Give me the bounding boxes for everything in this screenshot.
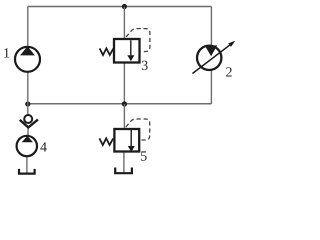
label 2 bbox=[226, 67, 232, 76]
tank symbol under valve 5 bbox=[115, 168, 132, 174]
tank symbol under pump 4 bbox=[19, 169, 35, 174]
check valve circle bbox=[24, 115, 32, 123]
wire top rail horizontal bbox=[28, 6, 212, 8]
wire check valve to pump 4 bbox=[27, 128, 29, 136]
label 4 bbox=[40, 142, 47, 151]
node left junction bbox=[25, 101, 30, 106]
wire top-right vertical (top rail to motor 2) bbox=[210, 7, 212, 46]
pump 4 flow triangle bbox=[22, 136, 33, 142]
node middle junction bbox=[122, 101, 127, 106]
relief valve 5 pilot line (dashed) bbox=[126, 119, 150, 140]
wire valve 3 inlet (top rail down to valve 3) bbox=[123, 7, 125, 40]
pump 1 flow triangle bbox=[20, 46, 35, 55]
wire valve 3 outlet (valve 3 down to middle rail) bbox=[123, 63, 125, 105]
motor 2 variable-displacement arrowhead bbox=[228, 41, 235, 47]
check valve seat bbox=[20, 120, 38, 128]
relief valve 3 flow arrowhead bbox=[127, 55, 134, 61]
motor 2 variable-displacement arrow shaft bbox=[193, 45, 231, 74]
relief valve 5 spring bbox=[99, 138, 113, 145]
wire middle-right vertical (motor 2 to middle rail) bbox=[210, 71, 212, 105]
relief valve 3 body bbox=[114, 39, 140, 63]
motor 2 flow wedge bbox=[205, 45, 217, 56]
relief valve 5 flow arrow shaft bbox=[130, 130, 132, 146]
label 3 bbox=[142, 61, 148, 70]
relief valve 3 spring bbox=[100, 48, 114, 55]
relief valve 5 flow arrowhead bbox=[128, 146, 135, 152]
wire pump 1 outlet down through left junction to check valve bbox=[27, 73, 29, 115]
relief valve 3 pilot line (dashed) bbox=[126, 29, 150, 52]
pump 1 circle bbox=[15, 47, 40, 72]
wire top-left vertical (pump 1 to top rail) bbox=[27, 7, 29, 46]
label 5 bbox=[141, 151, 147, 160]
wire valve 5 outlet to tank bbox=[123, 152, 125, 173]
relief valve 3 flow arrow shaft bbox=[130, 40, 132, 55]
wire valve 5 inlet (middle rail down to valve 5) bbox=[123, 104, 125, 129]
relief valve 5 body bbox=[114, 129, 139, 152]
wire pump 4 to tank bbox=[26, 157, 28, 173]
label 1 bbox=[4, 48, 9, 57]
wire middle rail horizontal bbox=[28, 103, 212, 105]
motor 2 circle bbox=[197, 46, 221, 70]
node top junction bbox=[122, 4, 127, 9]
pump 4 circle bbox=[17, 136, 37, 156]
